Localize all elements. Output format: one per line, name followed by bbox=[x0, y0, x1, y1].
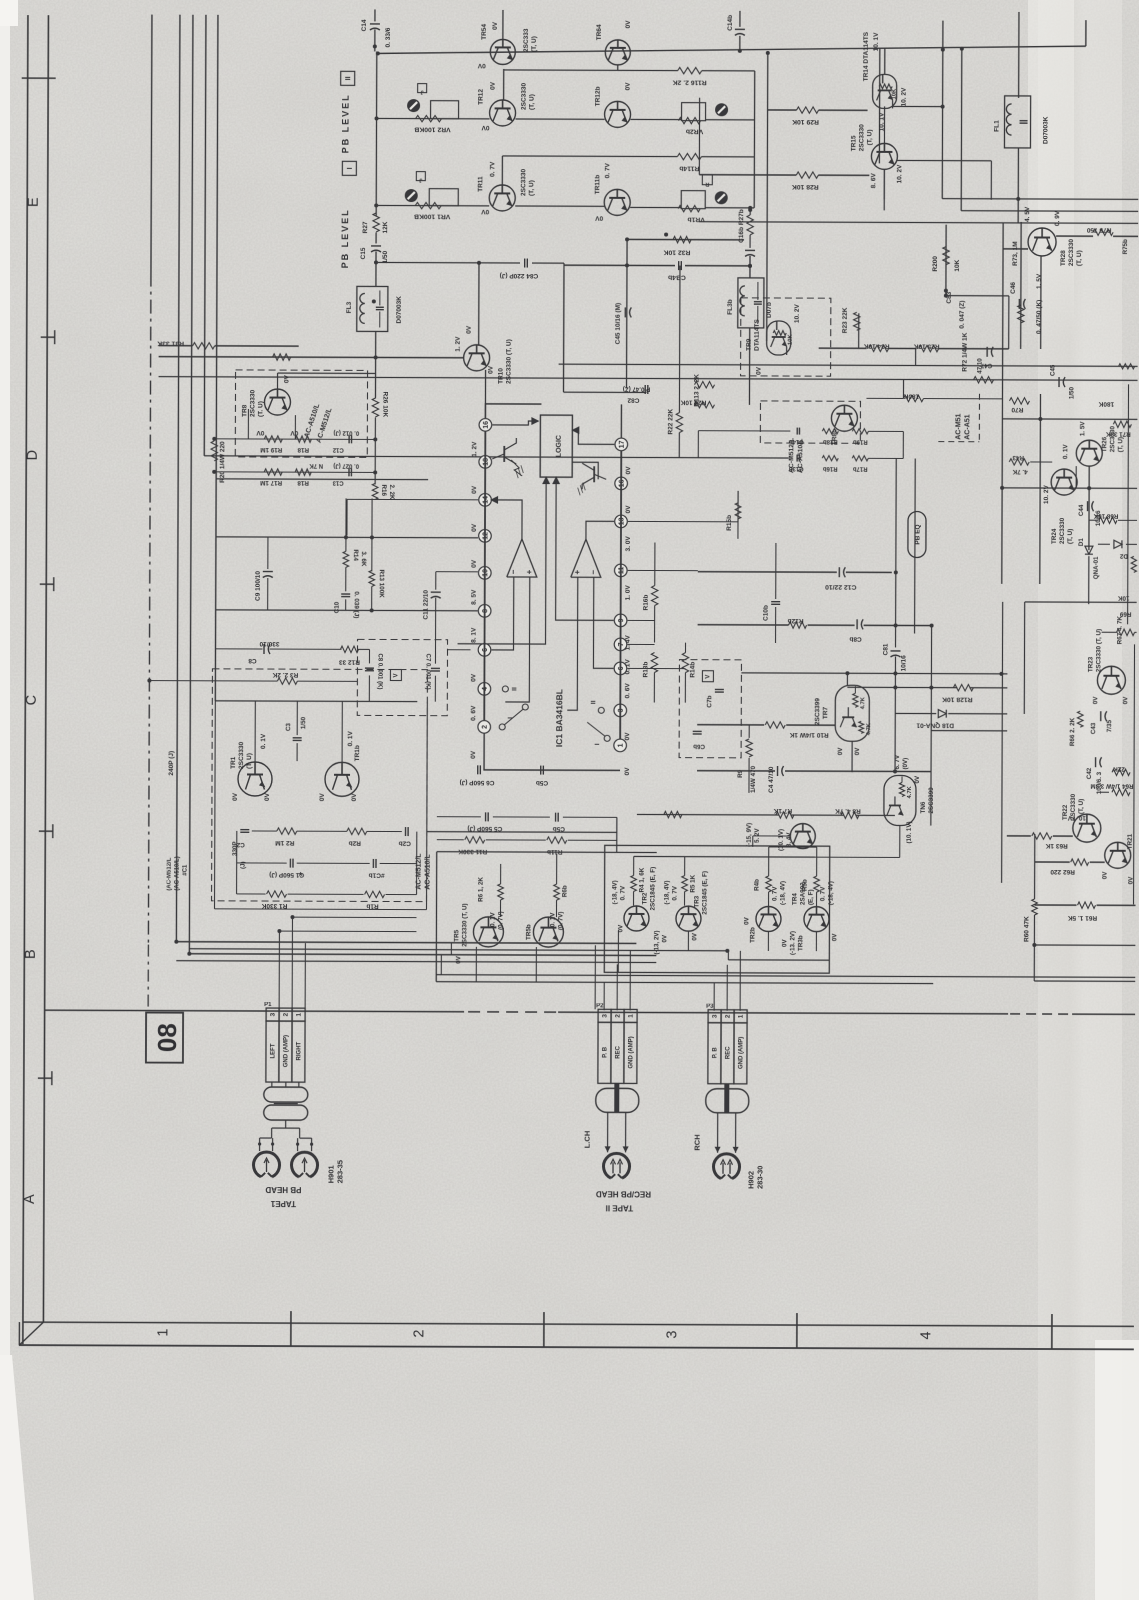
svg-text:R43: R43 bbox=[1012, 454, 1024, 461]
wire v445 rise bbox=[440, 955, 442, 975]
wire 622 row bbox=[698, 624, 789, 626]
wire v860 bbox=[858, 313, 860, 348]
wire v1004 low bbox=[1001, 419, 1004, 584]
svg-text:0V: 0V bbox=[481, 208, 490, 215]
svg-text:0V: 0V bbox=[743, 916, 750, 924]
wire v1042 low bbox=[1039, 394, 1042, 584]
svg-text:+: + bbox=[525, 569, 534, 574]
svg-text:C14: C14 bbox=[361, 19, 368, 31]
svg-text:A: A bbox=[22, 1194, 38, 1204]
transistor TR22 bbox=[1073, 814, 1101, 842]
svg-text:B: B bbox=[23, 949, 39, 959]
svg-text:1: 1 bbox=[296, 1012, 303, 1016]
svg-text:0V: 0V bbox=[471, 485, 478, 494]
bus wire 3 bbox=[189, 15, 193, 954]
capacitor C5b b bbox=[555, 813, 557, 822]
svg-text:C3: C3 bbox=[285, 723, 292, 732]
svg-text:0V: 0V bbox=[351, 793, 358, 802]
transistor TR8 bbox=[264, 389, 290, 415]
REC head 1 bbox=[603, 1153, 629, 1178]
capacitor C84 bbox=[524, 259, 526, 268]
capacitor C43 bbox=[1100, 711, 1102, 721]
border left inner line bbox=[43, 15, 48, 1322]
border tick row E top bbox=[22, 77, 56, 79]
svg-text:0. 1V: 0. 1V bbox=[549, 912, 556, 927]
svg-text:R200: R200 bbox=[932, 256, 939, 272]
svg-text:R70: R70 bbox=[1011, 406, 1023, 413]
wire route 908 bbox=[215, 908, 427, 911]
svg-text:R26 10K: R26 10K bbox=[381, 391, 388, 417]
resistor R16 2.2K bbox=[372, 483, 378, 499]
wire left col a bbox=[214, 701, 217, 909]
pot VR1b zigzag bbox=[678, 205, 700, 211]
wire opL out bbox=[492, 500, 522, 539]
resistor R19 1M bbox=[264, 436, 282, 442]
wire pin13 ext bbox=[698, 521, 738, 523]
pot VR1b box bbox=[681, 191, 705, 209]
wire R61 row bbox=[1035, 904, 1077, 906]
svg-text:283-30: 283-30 bbox=[755, 1166, 764, 1189]
svg-text:V: V bbox=[705, 675, 711, 679]
svg-text:R2 1M: R2 1M bbox=[275, 839, 294, 846]
svg-text:C7 0. 001 (K): C7 0. 001 (K) bbox=[424, 654, 430, 690]
capacitor C1b bbox=[372, 859, 374, 868]
wire 680 row bbox=[149, 680, 277, 682]
wire FL3b bottom bbox=[748, 328, 750, 405]
svg-text:7/35: 7/35 bbox=[1106, 719, 1113, 732]
svg-text:R34 10K: R34 10K bbox=[864, 342, 890, 349]
svg-text:TR3b: TR3b bbox=[797, 935, 804, 951]
svg-text:1. 0V: 1. 0V bbox=[625, 585, 632, 601]
svg-text:REC: REC bbox=[616, 1045, 622, 1058]
svg-text:0V: 0V bbox=[490, 81, 497, 90]
svg-text:0. 47/50 (K): 0. 47/50 (K) bbox=[1036, 300, 1043, 334]
svg-text:2SC3330: 2SC3330 bbox=[520, 169, 527, 197]
svg-text:TR22: TR22 bbox=[1062, 804, 1069, 820]
wire opR plus bbox=[567, 577, 578, 710]
svg-text:R60 47K: R60 47K bbox=[1023, 916, 1030, 942]
svg-text:17: 17 bbox=[619, 440, 626, 448]
svg-text:R10 1/4W 1K: R10 1/4W 1K bbox=[789, 731, 828, 738]
diode D18 bbox=[938, 710, 946, 718]
svg-text:C2b: C2b bbox=[399, 840, 411, 847]
resistor R16b v bbox=[651, 586, 657, 606]
svg-text:1/50: 1/50 bbox=[1068, 387, 1075, 400]
resistor R16b bbox=[822, 456, 838, 461]
svg-text:0. 7V: 0. 7V bbox=[820, 886, 827, 901]
svg-text:P2: P2 bbox=[596, 1003, 604, 1009]
svg-text:C5 560P (J): C5 560P (J) bbox=[467, 825, 502, 832]
svg-text:0. 7V: 0. 7V bbox=[604, 162, 611, 178]
svg-text:283-35: 283-35 bbox=[335, 1160, 344, 1183]
resistor R20 v bbox=[211, 441, 217, 461]
wire v565 bbox=[562, 270, 564, 392]
resistor R1 330K bbox=[267, 891, 287, 897]
svg-text:D2: D2 bbox=[1119, 552, 1127, 559]
svg-text:4: 4 bbox=[918, 1331, 934, 1339]
svg-text:3. 0V: 3. 0V bbox=[625, 536, 632, 552]
capacitor C47 bbox=[986, 347, 988, 357]
svg-text:R1 330K: R1 330K bbox=[261, 902, 287, 909]
wire v 1022b bbox=[1020, 222, 1022, 349]
svg-text:C5b: C5b bbox=[536, 779, 548, 786]
TR7 internal res2 bbox=[859, 721, 864, 733]
IC1 pin 16 left bbox=[479, 419, 492, 432]
IC1 pin 11 right bbox=[614, 564, 627, 577]
wire v1010 tr bbox=[1008, 296, 1010, 349]
resistor R23 zig bbox=[854, 312, 860, 330]
wire R4b v bbox=[768, 847, 770, 876]
svg-text:R29 10K: R29 10K bbox=[792, 118, 819, 125]
row 498 stub bbox=[347, 498, 478, 501]
sheet number box bbox=[146, 1013, 183, 1063]
svg-text:P. B: P. B bbox=[603, 1046, 609, 1058]
svg-text:R64 1/4W 3.3M: R64 1/4W 3.3M bbox=[1090, 782, 1133, 789]
svg-text:R2b: R2b bbox=[349, 839, 361, 846]
resistor R4 zig bbox=[631, 875, 637, 891]
row 154 wire bbox=[502, 155, 677, 158]
svg-text:0V: 0V bbox=[290, 429, 299, 436]
connector P3 boot bbox=[706, 1089, 749, 1113]
svg-text:R72 1/4W 1K: R72 1/4W 1K bbox=[962, 332, 969, 371]
capacitor C13b bbox=[796, 455, 798, 462]
wire v905tr bbox=[902, 379, 904, 398]
svg-text:1. 5V: 1. 5V bbox=[1079, 421, 1086, 437]
wire R27-C15 bbox=[375, 232, 377, 243]
wire C10b bbox=[775, 543, 777, 599]
svg-text:0V: 0V bbox=[624, 767, 631, 776]
svg-text:R116 2. 2K: R116 2. 2K bbox=[673, 79, 707, 86]
svg-text:0. 6V: 0. 6V bbox=[470, 705, 477, 721]
svg-text:TR1: TR1 bbox=[230, 756, 237, 769]
wire R5 v bbox=[684, 857, 686, 876]
transistor TR15 bbox=[871, 143, 897, 169]
wire TR5 box top bbox=[437, 851, 657, 854]
svg-text:0V: 0V bbox=[319, 793, 326, 802]
capacitor CB4b bbox=[678, 261, 680, 270]
svg-text:VR2 100KB: VR2 100KB bbox=[414, 126, 450, 133]
svg-text:0. 1V: 0. 1V bbox=[489, 912, 496, 927]
resistor on TR10 row bbox=[273, 354, 291, 360]
svg-text:TR4: TR4 bbox=[792, 893, 799, 905]
svg-text:0. 33/6: 0. 33/6 bbox=[385, 27, 392, 47]
svg-text:R13b: R13b bbox=[642, 662, 649, 678]
wire v565 a bbox=[562, 263, 564, 392]
wire row 415 bbox=[1002, 418, 1137, 421]
resistor R7 1K bbox=[776, 812, 794, 818]
svg-text:C6 560P (J): C6 560P (J) bbox=[460, 779, 495, 786]
IC1 pin 4 left bbox=[478, 683, 491, 696]
svg-text:2SC3399: 2SC3399 bbox=[814, 698, 821, 726]
svg-text:TR5b: TR5b bbox=[525, 924, 532, 940]
capacitor C7b bbox=[715, 688, 724, 690]
svg-text:D07003K: D07003K bbox=[1042, 116, 1049, 144]
wire P3 to head bbox=[717, 1113, 719, 1153]
resistor R13b bbox=[651, 653, 657, 673]
resistor R1b bbox=[365, 891, 385, 897]
svg-text:(T, U): (T, U) bbox=[531, 36, 538, 52]
wire TR7 top bbox=[846, 673, 848, 685]
svg-text:D18 QNA-01: D18 QNA-01 bbox=[916, 722, 954, 729]
svg-text:0. 047 (Z): 0. 047 (Z) bbox=[959, 300, 966, 328]
svg-text:3: 3 bbox=[712, 1014, 719, 1018]
svg-text:0V: 0V bbox=[625, 505, 632, 514]
svg-text:LEFT: LEFT bbox=[271, 1043, 277, 1058]
resistor R17 1M bbox=[264, 469, 282, 475]
wire right col v1 bbox=[753, 71, 756, 208]
wire TR10 up bbox=[478, 263, 480, 346]
mark box V2 bbox=[702, 671, 713, 682]
wire row 980r bbox=[616, 982, 933, 983]
svg-text:5. 2V: 5. 2V bbox=[754, 828, 761, 843]
wire R13b R14b bbox=[684, 643, 686, 653]
wire opL minus bbox=[492, 577, 514, 650]
IC1 pin 18 left bbox=[479, 456, 492, 469]
svg-text:#C1: #C1 bbox=[183, 864, 189, 876]
wire D row h1 bbox=[216, 478, 428, 481]
wire v1091 bbox=[1088, 466, 1090, 550]
resistor R62 220 bbox=[1071, 859, 1089, 865]
wire R32 row b bbox=[627, 238, 744, 240]
svg-text:R12b: R12b bbox=[788, 617, 804, 624]
svg-text:R16b: R16b bbox=[823, 465, 838, 471]
svg-text:1: 1 bbox=[628, 1014, 635, 1018]
border tick D/C bbox=[40, 583, 54, 585]
capacitor C5 560P bbox=[485, 812, 487, 821]
capacitor C5b ic bbox=[540, 766, 542, 775]
capacitor C82 bbox=[644, 385, 646, 394]
filter FL3 box bbox=[357, 286, 388, 331]
svg-text:10. 1V: 10. 1V bbox=[873, 32, 880, 51]
wire C12 row bbox=[698, 571, 837, 574]
border tick B/A bbox=[38, 1077, 52, 1079]
capacitor C45 10/16 bbox=[624, 307, 626, 317]
top rail wire bbox=[378, 43, 1086, 56]
svg-text:0. 012 (J): 0. 012 (J) bbox=[333, 429, 359, 435]
resistor R32 10K bbox=[673, 236, 691, 242]
svg-text:08: 08 bbox=[152, 1023, 182, 1052]
wire 815 row bbox=[437, 816, 481, 818]
svg-text:0V: 0V bbox=[914, 775, 921, 783]
svg-text:AC-M51: AC-M51 bbox=[955, 414, 962, 440]
svg-text:2: 2 bbox=[283, 1012, 290, 1016]
svg-text:0V: 0V bbox=[756, 366, 763, 375]
svg-text:R114b: R114b bbox=[679, 165, 699, 172]
row 68 wire bbox=[504, 69, 678, 72]
svg-text:0V: 0V bbox=[625, 82, 632, 91]
IC1 pin 13 right bbox=[615, 515, 628, 528]
svg-text:(T, U): (T, U) bbox=[866, 129, 873, 145]
arrow to logic bbox=[531, 417, 539, 425]
transistor TR23 bbox=[1097, 666, 1125, 694]
IC1 pin 3 right bbox=[614, 704, 627, 717]
resistor R24 10K bbox=[694, 401, 714, 407]
bus wire 3 turn right bbox=[189, 954, 656, 956]
svg-text:10K: 10K bbox=[892, 88, 898, 99]
svg-text:4.7K: 4.7K bbox=[860, 696, 866, 709]
connector P1 coil loop1 bbox=[264, 1087, 308, 1102]
wire R31 row bbox=[159, 345, 193, 347]
svg-text:2SC3330 (T, U): 2SC3330 (T, U) bbox=[1095, 629, 1102, 672]
svg-text:(T, U): (T, U) bbox=[1076, 250, 1083, 266]
wire P3 pins up bbox=[713, 983, 715, 1011]
svg-text:R4b: R4b bbox=[754, 879, 761, 891]
svg-text:R18b: R18b bbox=[823, 438, 838, 444]
svg-text:TR15: TR15 bbox=[850, 135, 857, 151]
capacitor C16b bbox=[745, 249, 755, 251]
svg-text:D07003K: D07003K bbox=[396, 296, 403, 324]
wire row 458 bbox=[1030, 461, 1052, 463]
wire v1005 r bbox=[1002, 602, 1003, 883]
resistor R28 10K bbox=[796, 172, 818, 178]
right fold band bbox=[1038, 0, 1122, 1600]
svg-text:C13b: C13b bbox=[789, 465, 804, 471]
capacitor C9 100/10 bbox=[267, 537, 269, 569]
IC1 right pin rail bbox=[620, 450, 621, 739]
resistor R6b zig bbox=[554, 884, 560, 900]
resistor R23 22K v bbox=[1018, 305, 1024, 323]
svg-text:180K: 180K bbox=[1098, 400, 1114, 407]
wire TR8 base col bbox=[247, 409, 249, 439]
ruler bottom line bbox=[19, 1345, 1134, 1349]
svg-text:TN6: TN6 bbox=[920, 801, 927, 813]
wire v898 bbox=[895, 458, 898, 647]
svg-text:0V: 0V bbox=[625, 466, 632, 475]
wire TR15 down bbox=[883, 169, 885, 210]
svg-text:R18: R18 bbox=[297, 446, 309, 453]
ruler tick 2/3 bbox=[543, 1312, 545, 1347]
pot VR2 zigzag bbox=[416, 115, 442, 121]
wire v1038 bbox=[1034, 834, 1036, 899]
svg-text:C83: C83 bbox=[946, 291, 953, 303]
wire FL3 bottom bbox=[374, 331, 376, 397]
svg-text:R23 22K: R23 22K bbox=[842, 307, 849, 333]
svg-text:0V: 0V bbox=[284, 374, 291, 383]
pot VR2b zigzag bbox=[679, 117, 701, 123]
wire x374 col bbox=[371, 498, 373, 571]
wire TR10 left bbox=[159, 357, 464, 358]
capacitor C14 bbox=[374, 9, 376, 21]
svg-text:LOGIC: LOGIC bbox=[556, 435, 563, 457]
IC1 left rail top bbox=[485, 404, 541, 419]
svg-text:TR12: TR12 bbox=[478, 89, 485, 105]
wire R10 row bbox=[697, 724, 764, 726]
wire R62 row bbox=[1035, 861, 1070, 863]
IC1 pin 1 right bbox=[614, 739, 627, 752]
resistor R2b bbox=[347, 828, 367, 834]
resistor R4b zig bbox=[766, 876, 772, 892]
wire C82 row bbox=[563, 391, 646, 393]
dashed box C7C8 bbox=[357, 639, 447, 715]
wire R16b v bbox=[654, 543, 656, 586]
capacitor C6b bbox=[693, 730, 702, 732]
svg-text:RIGHT: RIGHT bbox=[297, 1041, 303, 1060]
dashed box C7b bbox=[679, 660, 741, 758]
ruler tick 1/2 bbox=[290, 1311, 292, 1346]
svg-text:0V: 0V bbox=[625, 20, 632, 29]
svg-text:R19b: R19b bbox=[853, 438, 868, 444]
FL1 cap bbox=[1020, 120, 1028, 122]
top rail stub up bbox=[1085, 20, 1087, 46]
svg-text:0V: 0V bbox=[470, 673, 477, 682]
svg-text:R128 10K: R128 10K bbox=[942, 696, 973, 703]
row 455 long bbox=[428, 457, 788, 458]
wire left col b bbox=[426, 702, 429, 910]
svg-text:0V: 0V bbox=[466, 325, 473, 334]
svg-text:0. 7V: 0. 7V bbox=[772, 886, 779, 901]
svg-text:I: I bbox=[507, 717, 514, 719]
capacitor C10 bbox=[341, 593, 350, 595]
svg-text:(-15, 9V): (-15, 9V) bbox=[746, 823, 753, 847]
svg-text:0V: 0V bbox=[470, 750, 477, 759]
svg-text:TR54: TR54 bbox=[481, 24, 488, 40]
resistor R27b bbox=[747, 215, 753, 235]
wire row 117 bbox=[377, 117, 490, 119]
svg-text:II: II bbox=[590, 700, 597, 704]
pot VR1 zigzag bbox=[415, 202, 441, 208]
row 648 to pin6 bbox=[448, 649, 471, 651]
screw VR1b bbox=[715, 191, 728, 204]
svg-text:10. 2V: 10. 2V bbox=[901, 87, 908, 106]
wire logic in2 bbox=[556, 477, 615, 620]
FL3 cap bbox=[376, 306, 384, 308]
resistor R6 zig bbox=[498, 884, 504, 900]
svg-text:GND (AMP): GND (AMP) bbox=[739, 1037, 745, 1069]
svg-text:2SC333: 2SC333 bbox=[523, 28, 530, 52]
svg-text:C46: C46 bbox=[1010, 282, 1017, 294]
switch pin2 bbox=[499, 724, 505, 730]
wire C45 v bbox=[626, 239, 629, 388]
dashed box TR8 bbox=[235, 370, 367, 458]
resistor fade1 bbox=[1119, 364, 1135, 369]
svg-text:2: 2 bbox=[725, 1014, 732, 1018]
svg-text:R14: R14 bbox=[352, 549, 359, 561]
wire b rows bbox=[698, 430, 790, 432]
svg-text:R5 1K: R5 1K bbox=[690, 874, 697, 892]
svg-text:R6 1, 2K: R6 1, 2K bbox=[478, 877, 485, 902]
wire right col v2 bbox=[767, 53, 768, 341]
border tick E/D bbox=[41, 336, 55, 338]
svg-text:R18: R18 bbox=[297, 479, 309, 486]
wire C8k col bbox=[368, 649, 370, 663]
svg-text:2SC3330: 2SC3330 bbox=[1059, 517, 1066, 544]
PB head right bbox=[291, 1152, 317, 1177]
capacitor C8 0.001 bbox=[365, 667, 374, 669]
svg-text:QNA-01: QNA-01 bbox=[1093, 556, 1100, 579]
resistor R 22K zig bbox=[1112, 769, 1130, 775]
wire TR2 emitter col bbox=[617, 930, 619, 972]
svg-text:0. 7V: 0. 7V bbox=[489, 161, 496, 177]
row 536 wire bbox=[216, 537, 478, 538]
main line 1010 dash a bbox=[468, 1011, 556, 1013]
resistor R6x bbox=[664, 811, 682, 817]
svg-text:R28 10K: R28 10K bbox=[792, 183, 819, 190]
wire TR15 collector up bbox=[883, 106, 885, 143]
svg-text:0. 9V: 0. 9V bbox=[1054, 210, 1061, 226]
svg-text:TR14 DTA114TS: TR14 DTA114TS bbox=[863, 31, 870, 81]
transistor TR24 bbox=[1051, 469, 1077, 495]
svg-text:(T, U): (T, U) bbox=[1078, 799, 1085, 814]
svg-text:R16b: R16b bbox=[643, 595, 650, 611]
svg-text:C7b: C7b bbox=[706, 695, 713, 707]
resistor R63 1K bbox=[1032, 833, 1052, 839]
wire row 484 bbox=[1002, 487, 1137, 490]
svg-text:TAPE1: TAPE1 bbox=[270, 1199, 296, 1208]
wire C11 bbox=[435, 572, 437, 590]
svg-text:C16b R27b: C16b R27b bbox=[738, 209, 745, 243]
resistor R18 a bbox=[295, 436, 311, 442]
wire long row 362 bbox=[559, 364, 1138, 366]
